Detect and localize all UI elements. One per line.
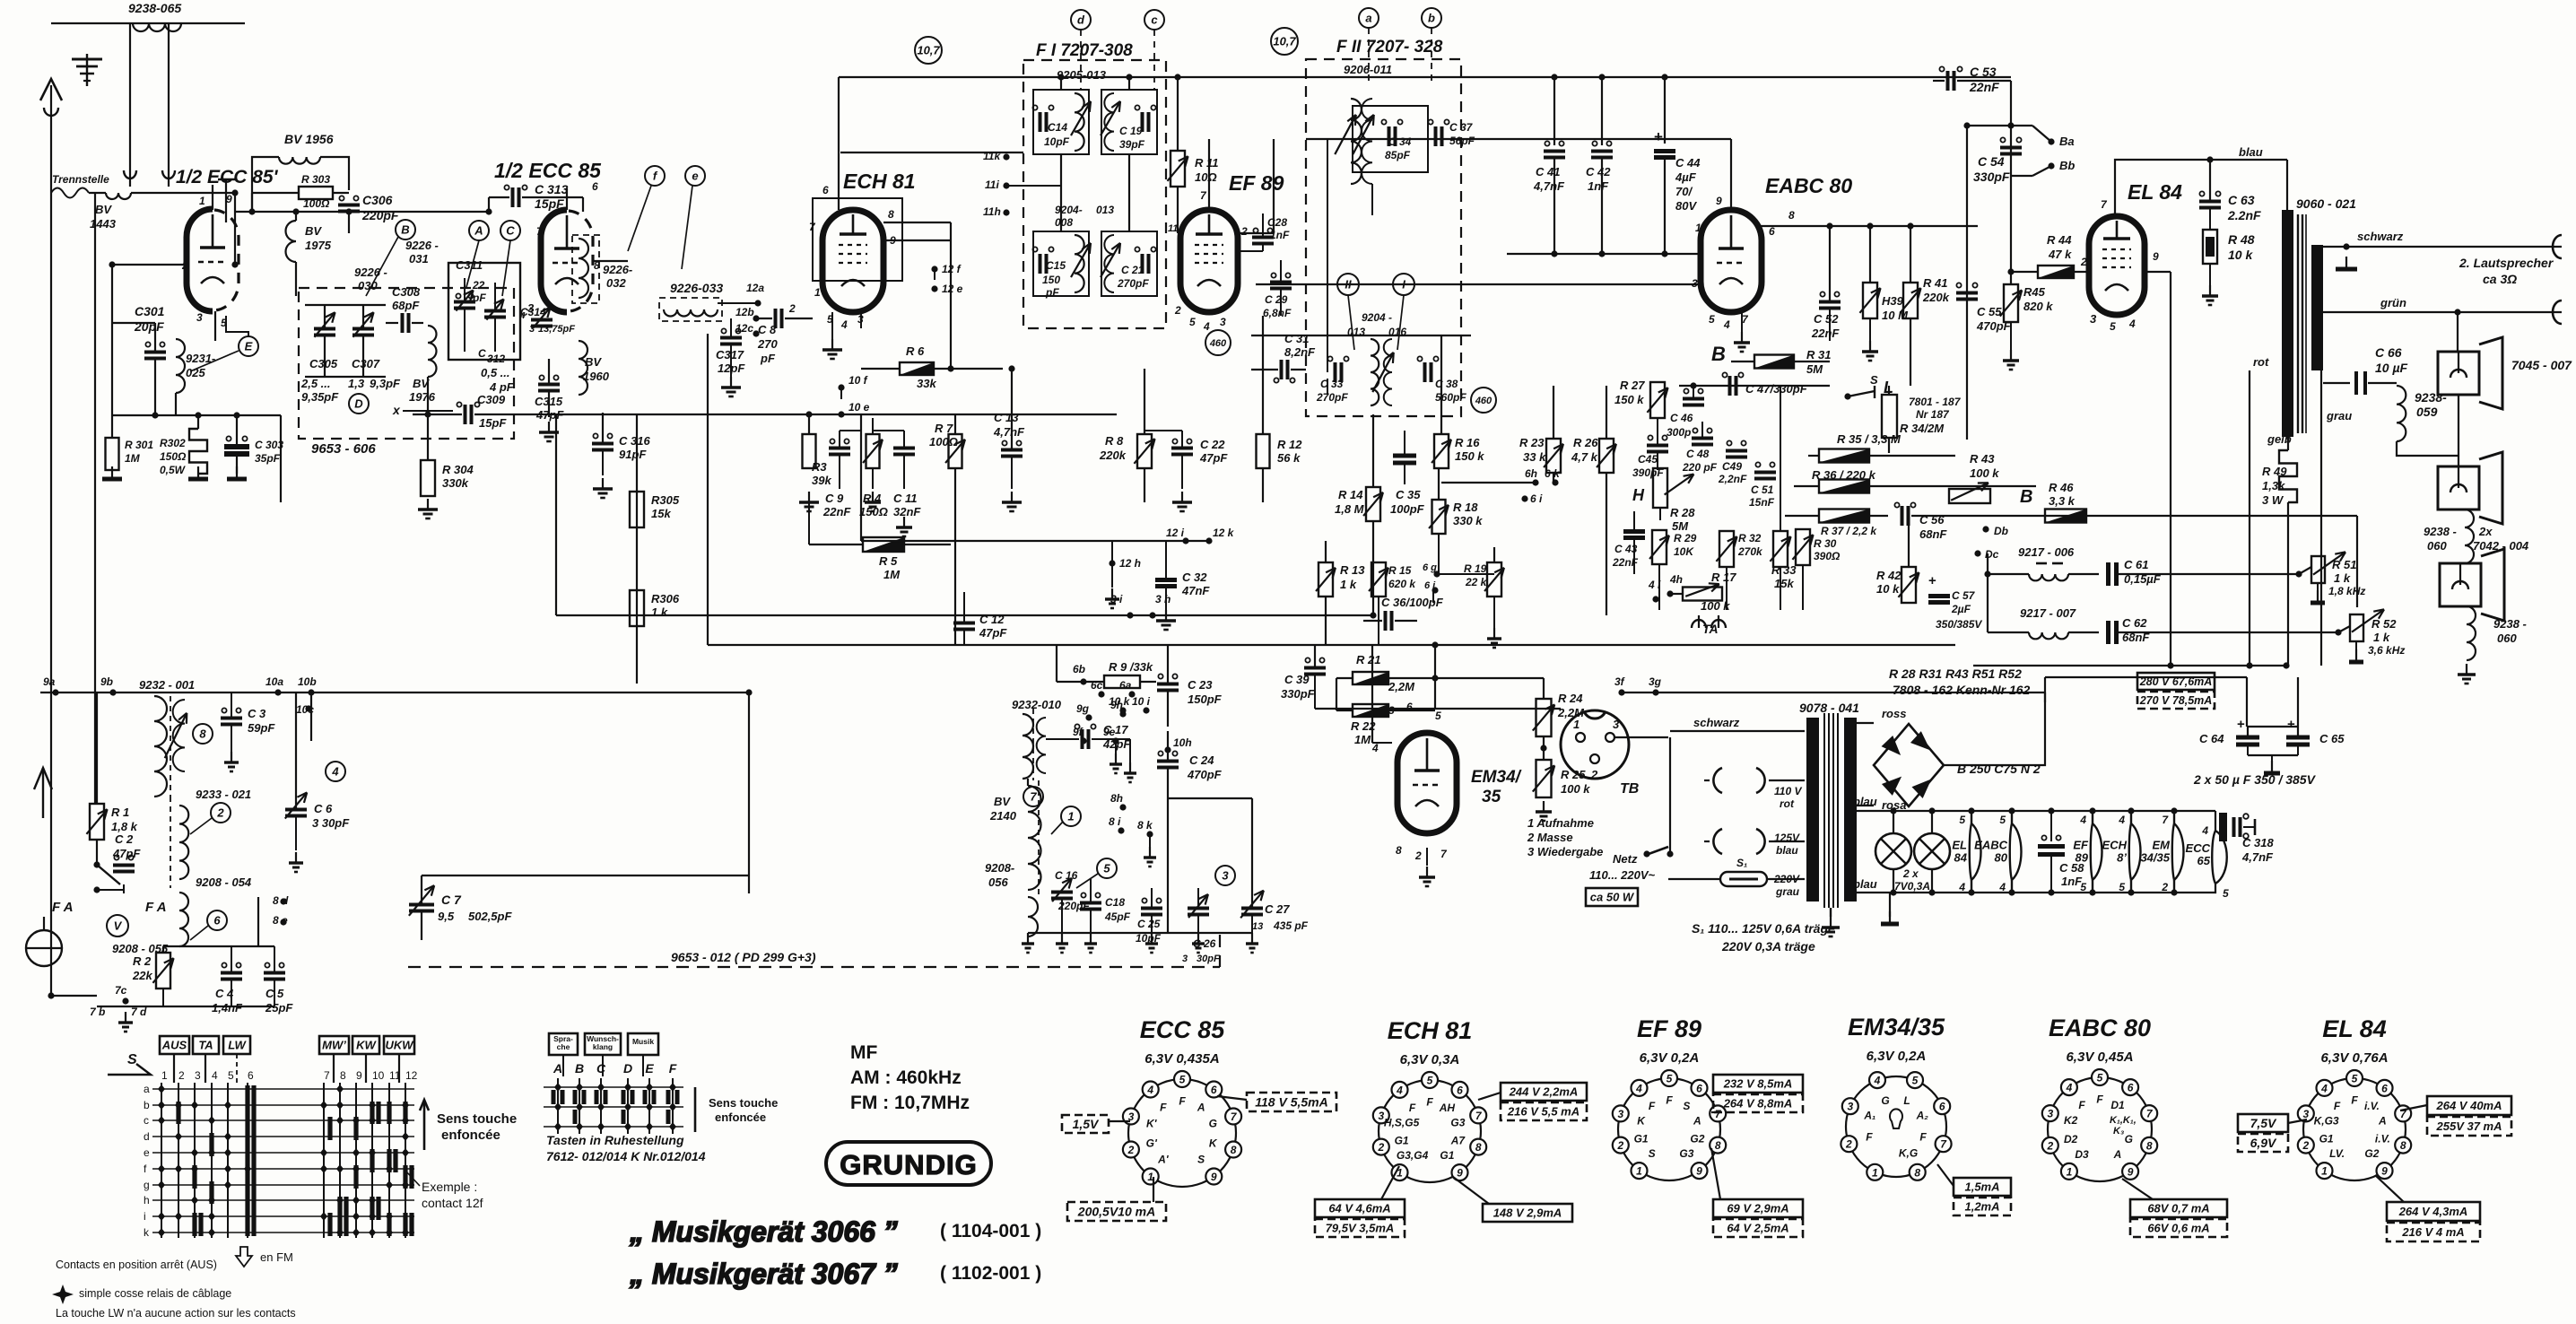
coil 9231-025 xyxy=(176,339,185,393)
svg-text:C 27: C 27 xyxy=(1265,902,1290,916)
svg-text:7: 7 xyxy=(1030,790,1037,804)
svg-text:6,3V 0,3A: 6,3V 0,3A xyxy=(1400,1052,1460,1067)
svg-text:10h: 10h xyxy=(1173,736,1192,749)
svg-text:k: k xyxy=(144,1226,150,1239)
svg-text:R 6: R 6 xyxy=(906,344,925,358)
svg-text:91pF: 91pF xyxy=(619,448,647,461)
svg-text:270pF: 270pF xyxy=(1117,277,1149,290)
coil BV1960 xyxy=(579,341,587,395)
box 1,5mA xyxy=(1954,1178,2011,1196)
resistor R49 1,3k 3W xyxy=(2279,450,2297,502)
svg-text:L: L xyxy=(1903,1094,1910,1107)
capacitor C318 4,7nF xyxy=(2219,813,2227,841)
svg-text:1: 1 xyxy=(2067,1165,2073,1178)
svg-text:A: A xyxy=(2113,1148,2122,1161)
svg-text:4: 4 xyxy=(2128,318,2136,330)
svg-text:100pF: 100pF xyxy=(1390,502,1425,516)
resistor R45 820k xyxy=(2004,284,2018,322)
svg-text:C306: C306 xyxy=(362,193,393,207)
svg-text:+: + xyxy=(1928,573,1936,588)
svg-text:4: 4 xyxy=(1635,1082,1642,1094)
svg-text:435 pF: 435 pF xyxy=(1273,919,1309,932)
svg-text:118 V 5,5mA: 118 V 5,5mA xyxy=(1255,1095,1327,1110)
triode EABC80 xyxy=(1701,210,1762,312)
svg-text:K2: K2 xyxy=(2064,1114,2078,1127)
svg-text:S: S xyxy=(1197,1154,1205,1166)
svg-text:9233 - 021: 9233 - 021 xyxy=(196,788,251,801)
svg-text:Exemple :: Exemple : xyxy=(422,1180,477,1194)
svg-text:EF: EF xyxy=(2073,839,2089,852)
svg-text:R 12: R 12 xyxy=(1277,438,1302,451)
svg-text:GRUNDIG: GRUNDIG xyxy=(840,1149,977,1180)
capacitor C44 4uF electrolytic xyxy=(1664,77,1666,144)
button Sprache xyxy=(549,1033,578,1055)
output transformer core xyxy=(2297,214,2299,433)
svg-text:K₁,K₁,: K₁,K₁, xyxy=(2110,1115,2137,1126)
svg-text:2 Masse: 2 Masse xyxy=(1527,831,1573,844)
svg-text:4: 4 xyxy=(2118,814,2125,826)
svg-text:2: 2 xyxy=(2161,881,2168,893)
resistor R33 15k xyxy=(1773,531,1788,567)
svg-text:C 53: C 53 xyxy=(1970,65,1997,79)
svg-text:6: 6 xyxy=(822,184,829,196)
node 6i2 xyxy=(1521,495,1527,501)
svg-text:12 k: 12 k xyxy=(1213,527,1235,539)
svg-text:R 48: R 48 xyxy=(2228,232,2255,247)
wire bus xyxy=(1553,77,1555,145)
wires FII xyxy=(1350,184,1352,339)
wire xyxy=(1434,645,1436,709)
svg-text:EL 84: EL 84 xyxy=(2128,180,2182,204)
svg-text:C301: C301 xyxy=(135,304,165,318)
svg-text:1975: 1975 xyxy=(305,239,332,252)
svg-text:LV.: LV. xyxy=(2329,1147,2345,1160)
svg-text:C 7: C 7 xyxy=(441,893,462,907)
svg-text:2: 2 xyxy=(1127,1144,1135,1156)
svg-text:6a: 6a xyxy=(1119,679,1132,692)
wire xyxy=(950,222,952,369)
svg-text:6: 6 xyxy=(1696,1082,1702,1094)
svg-text:F I 7207-308: F I 7207-308 xyxy=(1036,41,1133,60)
coil BV1975 xyxy=(286,221,297,262)
svg-text:EL: EL xyxy=(1952,839,1967,852)
svg-text:148 V 2,9mA: 148 V 2,9mA xyxy=(1493,1206,1562,1220)
svg-text:F A: F A xyxy=(145,900,167,915)
svg-text:264 V 40mA: 264 V 40mA xyxy=(2436,1099,2502,1112)
svg-text:R 13: R 13 xyxy=(1340,563,1365,577)
variable capacitor C305 xyxy=(314,327,335,331)
svg-text:S: S xyxy=(1870,373,1878,387)
resistor R8 220k xyxy=(1137,434,1152,468)
svg-text:B: B xyxy=(575,1061,584,1076)
capacitor C24 470pF xyxy=(1157,760,1179,763)
svg-text:C309: C309 xyxy=(477,393,506,406)
capacitor C17 42pF xyxy=(1081,729,1084,749)
svg-text:C 34: C 34 xyxy=(1388,135,1412,148)
svg-text:C 36/100pF: C 36/100pF xyxy=(1381,596,1444,609)
capacitor C303 35pF xyxy=(224,444,249,449)
svg-text:5: 5 xyxy=(1959,814,1965,826)
svg-text:C: C xyxy=(506,224,515,238)
svg-text:6c: 6c xyxy=(1091,679,1103,692)
node C xyxy=(500,221,520,240)
svg-text:EL 84: EL 84 xyxy=(2322,1015,2387,1042)
wire rot xyxy=(2249,370,2250,666)
svg-text:pF: pF xyxy=(760,352,776,365)
svg-text:b: b xyxy=(144,1099,150,1111)
resistor R29 10k xyxy=(1652,530,1667,564)
svg-text:F A: F A xyxy=(52,900,74,915)
svg-text:79,5V 3,5mA: 79,5V 3,5mA xyxy=(1326,1222,1395,1235)
svg-text:8: 8 xyxy=(1396,844,1402,857)
capacitor C32 47nF xyxy=(1155,578,1177,582)
node II xyxy=(1337,274,1359,295)
svg-text:9217 - 006: 9217 - 006 xyxy=(2018,545,2075,559)
svg-text:Sens touche: Sens touche xyxy=(437,1111,517,1127)
svg-text:9: 9 xyxy=(1696,1165,1702,1178)
svg-text:69 V 2,9mA: 69 V 2,9mA xyxy=(1727,1202,1788,1215)
svg-text:10K: 10K xyxy=(1674,545,1694,558)
svg-text:060: 060 xyxy=(2497,632,2517,645)
svg-text:22: 22 xyxy=(472,279,485,292)
node I xyxy=(1393,274,1414,295)
svg-text:47nF: 47nF xyxy=(1181,584,1210,597)
wire bottom grounds xyxy=(1028,932,1252,934)
capacitor C25 10pF xyxy=(1141,907,1162,910)
node D xyxy=(349,394,369,414)
svg-text:031: 031 xyxy=(409,252,429,266)
svg-text:9g: 9g xyxy=(1076,702,1090,715)
box 200,5V xyxy=(1067,1202,1166,1221)
svg-text:R 26: R 26 xyxy=(1573,436,1598,449)
svg-text:1443: 1443 xyxy=(90,217,117,231)
svg-text:A7: A7 xyxy=(1450,1135,1466,1147)
svg-text:3: 3 xyxy=(195,1069,201,1082)
svg-text:4 i: 4 i xyxy=(1648,579,1661,591)
svg-text:9: 9 xyxy=(2381,1165,2388,1178)
resistor R3 39k xyxy=(803,434,816,468)
svg-text:C 37: C 37 xyxy=(1449,121,1474,134)
bus 755 xyxy=(2044,677,2046,701)
node 12h xyxy=(1109,560,1115,566)
svg-text:C 17: C 17 xyxy=(1103,723,1128,736)
resistor R2 22k xyxy=(156,953,170,989)
svg-text:R 2: R 2 xyxy=(133,954,152,968)
svg-text:K: K xyxy=(1209,1137,1218,1150)
svg-text:V: V xyxy=(114,919,123,933)
svg-text:8: 8 xyxy=(2146,1139,2153,1152)
wire pin8 xyxy=(1760,225,1978,227)
svg-text:C 25: C 25 xyxy=(1137,918,1161,930)
svg-text:C311: C311 xyxy=(456,258,483,272)
svg-text:5: 5 xyxy=(1709,313,1715,326)
svg-text:C: C xyxy=(478,347,486,360)
svg-text:8,2nF: 8,2nF xyxy=(1284,345,1316,359)
svg-text:9: 9 xyxy=(1457,1167,1463,1180)
svg-text:2 x 50 µ F 350 / 385V: 2 x 50 µ F 350 / 385V xyxy=(2193,772,2317,787)
transformer secondary bars xyxy=(1844,718,1857,902)
wire cluster xyxy=(1315,540,1326,542)
svg-text:5M: 5M xyxy=(1806,362,1823,376)
svg-text:220 pF: 220 pF xyxy=(1682,461,1718,474)
svg-text:A: A xyxy=(1197,1101,1205,1113)
wire xyxy=(422,875,749,876)
svg-text:x: x xyxy=(392,403,401,417)
svg-text:5: 5 xyxy=(1103,862,1110,875)
svg-text:8: 8 xyxy=(1788,209,1795,222)
svg-text:8: 8 xyxy=(1914,1166,1920,1179)
svg-text:68pF: 68pF xyxy=(392,299,420,312)
resistor R44 47k xyxy=(2038,266,2074,278)
svg-text:9,5: 9,5 xyxy=(438,910,455,923)
svg-text:6,3V 0,435A: 6,3V 0,435A xyxy=(1144,1051,1219,1067)
svg-text:S: S xyxy=(1649,1147,1656,1160)
svg-text:100Ω: 100Ω xyxy=(303,197,330,210)
output transformer primary xyxy=(2282,210,2293,437)
svg-text:R 31: R 31 xyxy=(1806,348,1831,361)
svg-text:C14: C14 xyxy=(1048,121,1067,134)
svg-text:10pF: 10pF xyxy=(1044,135,1070,148)
svg-text:1,2mA: 1,2mA xyxy=(1964,1200,1999,1214)
svg-text:EF 89: EF 89 xyxy=(1637,1015,1701,1042)
wires in FI xyxy=(1060,154,1062,231)
svg-text:8: 8 xyxy=(888,208,894,221)
svg-text:8: 8 xyxy=(199,727,206,741)
capacitor C29 6,8nF xyxy=(1270,281,1292,284)
svg-text:11: 11 xyxy=(389,1069,401,1082)
svg-text:1/2 ECC 85: 1/2 ECC 85 xyxy=(494,159,602,182)
resistor R12 56k xyxy=(1257,434,1270,468)
svg-text:6,3V 0,45A: 6,3V 0,45A xyxy=(2066,1050,2133,1065)
capacitor C65 xyxy=(2286,736,2310,740)
wire xyxy=(2458,395,2459,466)
svg-text:7V0,3A: 7V0,3A xyxy=(1894,880,1930,893)
svg-text:7 b: 7 b xyxy=(90,1006,105,1018)
bus C xyxy=(1306,138,1731,140)
svg-text:F: F xyxy=(1649,1100,1656,1112)
box 264V40 xyxy=(2427,1096,2511,1115)
svg-text:4: 4 xyxy=(1723,318,1730,331)
svg-text:6,3V 0,76A: 6,3V 0,76A xyxy=(2320,1050,2388,1066)
svg-text:1 Aufnahme: 1 Aufnahme xyxy=(1527,816,1594,830)
svg-text:232 V 8,5mA: 232 V 8,5mA xyxy=(1723,1077,1793,1091)
svg-text:C: C xyxy=(596,1061,606,1076)
svg-text:G3: G3 xyxy=(1450,1116,1465,1128)
svg-text:R 11: R 11 xyxy=(1195,156,1219,170)
svg-text:R 18: R 18 xyxy=(1453,501,1478,514)
svg-text:025: 025 xyxy=(186,366,205,379)
svg-text:C49: C49 xyxy=(1722,460,1742,473)
node A xyxy=(469,221,489,240)
svg-text:9: 9 xyxy=(2128,1165,2134,1178)
svg-text:ECC: ECC xyxy=(2186,841,2211,855)
svg-text:9226 -: 9226 - xyxy=(405,239,439,252)
svg-text:3f: 3f xyxy=(1614,675,1625,688)
output transformer secondary xyxy=(2311,245,2323,370)
svg-text:9238 -: 9238 - xyxy=(2424,525,2457,538)
svg-text:3: 3 xyxy=(1692,277,1698,290)
svg-text:80V: 80V xyxy=(1675,199,1697,213)
node a xyxy=(1359,8,1379,28)
wire grid pin2 xyxy=(112,264,187,266)
svg-text:39k: 39k xyxy=(812,474,831,487)
svg-text:3: 3 xyxy=(1222,869,1229,883)
button MW xyxy=(319,1036,349,1054)
capacitor C46 300pF xyxy=(1683,397,1704,401)
svg-text:S₁ 110... 125V 0,6A träge: S₁ 110... 125V 0,6A träge xyxy=(1692,921,1835,936)
svg-text:c: c xyxy=(144,1114,149,1127)
svg-text:22nF: 22nF xyxy=(1612,556,1639,569)
FII lower coils xyxy=(1371,339,1379,405)
svg-text:1,5mA: 1,5mA xyxy=(1964,1180,1999,1194)
primary plugs xyxy=(1713,768,1722,793)
svg-text:200,5V10 mA: 200,5V10 mA xyxy=(1077,1205,1155,1219)
svg-text:22k: 22k xyxy=(132,969,152,982)
svg-text:R 27: R 27 xyxy=(1620,379,1645,392)
IF unit C15 xyxy=(1033,231,1089,296)
star note xyxy=(52,1285,74,1304)
capacitor C315 47pF xyxy=(538,383,560,387)
svg-text:10Ω: 10Ω xyxy=(1195,170,1217,184)
svg-text:22nF: 22nF xyxy=(822,505,851,518)
svg-text:La touche LW n'a aucune action: La touche LW n'a aucune action sur les c… xyxy=(56,1307,296,1320)
svg-text:10 f: 10 f xyxy=(849,374,868,387)
wire xyxy=(234,193,236,265)
svg-text:C 29: C 29 xyxy=(1265,293,1288,306)
svg-text:1M: 1M xyxy=(883,568,901,581)
svg-text:150Ω: 150Ω xyxy=(160,450,187,463)
svg-text:15k: 15k xyxy=(1774,577,1794,590)
svg-text:9226-: 9226- xyxy=(603,263,632,276)
svg-text:9226-033: 9226-033 xyxy=(670,281,723,295)
svg-text:Ba: Ba xyxy=(2059,135,2075,148)
wire grid cap xyxy=(111,265,113,439)
svg-text:C 24: C 24 xyxy=(1189,753,1214,767)
capacitor C5 25pF xyxy=(264,971,285,975)
svg-text:8: 8 xyxy=(1475,1141,1482,1154)
svg-text:8 i: 8 i xyxy=(1109,815,1121,828)
wire xyxy=(305,304,386,306)
svg-text:1: 1 xyxy=(1573,718,1580,731)
svg-text:C 8: C 8 xyxy=(758,323,777,336)
node 10e xyxy=(838,411,844,417)
svg-text:216 V 4 mA: 216 V 4 mA xyxy=(2401,1225,2464,1239)
svg-text:EABC: EABC xyxy=(1974,839,2007,852)
svg-text:0,5W: 0,5W xyxy=(160,464,187,476)
svg-text:C 38: C 38 xyxy=(1435,378,1458,390)
svg-text:7045 - 007: 7045 - 007 xyxy=(2511,358,2572,372)
svg-text:1: 1 xyxy=(1636,1165,1642,1178)
svg-text:70/: 70/ xyxy=(1675,185,1693,198)
svg-text:12 h: 12 h xyxy=(1119,557,1141,570)
svg-text:560pF: 560pF xyxy=(1435,391,1466,404)
svg-text:6: 6 xyxy=(1406,701,1413,713)
svg-text:264 V 8,8mA: 264 V 8,8mA xyxy=(1723,1097,1793,1111)
svg-text:4: 4 xyxy=(1998,881,2006,893)
svg-text:Nr 187: Nr 187 xyxy=(1916,408,1950,421)
svg-text:A₁: A₁ xyxy=(1863,1109,1875,1121)
wire vertical xyxy=(2170,272,2171,666)
svg-text:pF: pF xyxy=(472,292,486,304)
svg-text:F: F xyxy=(669,1061,677,1076)
svg-text:G: G xyxy=(2125,1133,2133,1145)
svg-text:R 8: R 8 xyxy=(1105,434,1124,448)
svg-text:5: 5 xyxy=(2080,881,2086,893)
svg-text:6 i: 6 i xyxy=(1530,492,1543,505)
svg-text:10 k: 10 k xyxy=(1109,695,1131,708)
svg-text:R 24: R 24 xyxy=(1558,692,1583,705)
pot R51 1k xyxy=(2311,556,2325,583)
svg-text:6: 6 xyxy=(1457,1084,1463,1096)
svg-text:Bb: Bb xyxy=(2059,159,2075,172)
node Ba xyxy=(2048,138,2054,144)
wire drops xyxy=(129,23,131,187)
resistor R301 1M xyxy=(106,438,119,470)
node E xyxy=(239,336,258,356)
svg-text:22nF: 22nF xyxy=(1969,80,1999,94)
capacitor C63 2,2nF xyxy=(2199,200,2221,204)
wire xyxy=(555,415,557,615)
resistor R22 1M xyxy=(1353,704,1388,717)
svg-text:R 23: R 23 xyxy=(1519,436,1545,449)
wire cathode bus xyxy=(112,414,281,416)
svg-text:C 313: C 313 xyxy=(535,182,569,196)
svg-text:4: 4 xyxy=(840,318,848,331)
svg-text:8 k: 8 k xyxy=(1137,819,1153,832)
svg-text:100 k: 100 k xyxy=(1701,599,1730,613)
svg-text:6: 6 xyxy=(592,180,598,193)
svg-text:10a: 10a xyxy=(265,675,283,688)
node 1 circled xyxy=(1061,806,1081,826)
resistor R305 15k xyxy=(630,492,644,527)
svg-text:7: 7 xyxy=(324,1069,330,1082)
svg-text:39pF: 39pF xyxy=(1119,138,1145,151)
node 10,7 circle xyxy=(915,37,942,64)
svg-text:13,75pF: 13,75pF xyxy=(538,324,575,335)
svg-text:3: 3 xyxy=(1847,1101,1853,1113)
svg-text:C307: C307 xyxy=(352,357,380,370)
svg-text:4,7 k: 4,7 k xyxy=(1571,450,1598,464)
svg-text:G: G xyxy=(1209,1117,1217,1129)
capacitor C56 68nF xyxy=(1901,506,1904,526)
resistor R11 10R xyxy=(1171,151,1185,187)
svg-text:R 7: R 7 xyxy=(935,422,953,435)
svg-text:1: 1 xyxy=(814,286,821,299)
svg-text:060: 060 xyxy=(2427,539,2447,553)
rectifier B250 xyxy=(1874,724,1944,806)
resistor R25 100k xyxy=(1536,760,1552,797)
svg-text:2: 2 xyxy=(1240,225,1248,238)
svg-text:R306: R306 xyxy=(651,592,680,605)
coil speaker xyxy=(2465,510,2474,563)
svg-text:2: 2 xyxy=(1590,768,1598,781)
capacitor C48 220pF xyxy=(1692,437,1713,440)
sens touche arrow xyxy=(423,1100,426,1150)
capacitor C317 12pF xyxy=(720,336,742,340)
svg-text:502,5pF: 502,5pF xyxy=(468,910,512,923)
svg-text:C315: C315 xyxy=(535,395,563,408)
svg-text:4: 4 xyxy=(2201,824,2208,837)
svg-text:LW: LW xyxy=(228,1039,247,1052)
IF unit C21 xyxy=(1101,231,1157,296)
svg-text:Netz: Netz xyxy=(1613,852,1638,866)
svg-text:C 48: C 48 xyxy=(1686,448,1710,460)
svg-text:Musik: Musik xyxy=(632,1037,654,1046)
svg-text:2. Lautsprecher: 2. Lautsprecher xyxy=(2459,256,2554,270)
svg-text:4 pF: 4 pF xyxy=(489,380,515,394)
capacitor C45 390pF xyxy=(1647,444,1668,448)
svg-text:C308: C308 xyxy=(392,285,421,299)
